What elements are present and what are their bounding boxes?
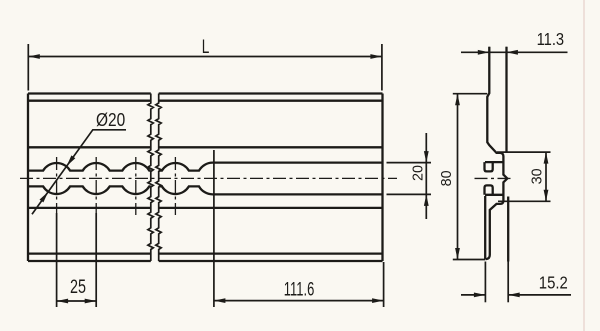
break line left zigzag [148,94,153,262]
section upper neck pocket [485,162,493,171]
svg-text:111.6: 111.6 [284,280,315,301]
section lower neck pocket [485,185,493,194]
svg-text:80: 80 [439,170,455,186]
dimension L line [28,56,382,58]
dimension 15.2 extension right [507,262,509,303]
dimension 111.6 line [214,300,384,302]
dimension 15.2 arrow left [474,293,486,298]
leader arrow at hole top edge [67,155,76,166]
dimension 25 line [57,300,97,302]
svg-text:11.3: 11.3 [537,29,565,49]
dimension 25 arrow left [57,299,69,304]
leader arrow at hole bottom edge [40,192,49,203]
dimension 20 extension line bottom [387,193,432,195]
dimension 30 extension top [497,151,551,153]
dimension 80 line [457,94,459,260]
dimension 30 line [545,152,547,201]
break line right zigzag [156,94,161,262]
section right edge top bar [505,47,507,153]
dimension 11.3 extension left [488,47,490,53]
dimension 80 arrow bottom [455,248,460,260]
dimension 11.3 extension right [505,47,507,53]
dimension 30 arrow top [544,152,549,164]
section lower shelf [485,194,503,196]
svg-text:L: L [202,37,210,58]
dimension 111.6 arrow right [372,298,384,303]
dimension 30 arrow bottom [544,190,549,202]
svg-text:30: 30 [530,168,546,184]
dimension 25 extension line left [56,213,58,307]
slot bottom edge with hole troughs [28,186,383,194]
inner line below top [28,100,383,102]
scanned page edge artifact [583,0,585,331]
dimension L arrow right [370,54,382,59]
hole 3 vertical center line [135,157,137,215]
dimension 20 arrow bottom [424,194,429,206]
svg-text:25: 25 [70,277,86,298]
inner line above bottom [28,252,383,254]
hole 2 vertical center line [95,157,97,213]
dimension 111.6 arrow left [214,298,226,303]
dimension 25 extension line right [95,213,97,307]
dimension 25 arrow right [85,299,97,304]
dimension 80 extension top [453,93,487,95]
dimension 80 extension bottom [453,259,485,261]
section upper shelf [485,161,503,163]
dimension 20 extension line top [387,162,432,164]
dimension 80 arrow top [455,94,460,106]
dimension 20 arrow top [424,151,429,163]
svg-text:15.2: 15.2 [539,272,568,292]
dimension 111.6 extension line right [383,262,385,307]
dimension L arrow left [28,54,40,59]
inner line below slot [28,207,383,209]
svg-text:Ø20: Ø20 [96,109,125,130]
inner line above slot [28,146,383,148]
horizontal center line [20,177,397,179]
dimension 30 extension bottom [498,200,551,202]
dimension 11.3 arrow right [506,50,518,55]
dimension L extension line right [381,44,383,91]
slot top edge with hole crests [28,163,383,171]
dimension 15.2 arrow right [508,293,520,298]
section right edge bottom bar [507,197,509,262]
rail top edge (split at break) [28,92,383,94]
dimension 15.2 line [461,294,571,296]
dimension 111.6 extension line left [213,150,215,307]
hole 1 vertical center line [56,157,58,213]
svg-text:20: 20 [411,165,427,181]
section outer left lower face [484,196,486,259]
dimension 20 line [425,133,427,219]
hole 4 vertical center line [174,157,176,215]
dimension L extension line left [27,44,29,91]
section center line [475,177,513,179]
leader line for hole diameter [32,130,126,214]
rail outline right edge [381,94,383,262]
dimension 11.3 arrow left [478,50,490,55]
rail outline left edge [27,94,29,262]
dimension 15.2 extension left [484,262,486,303]
dimension 11.3 line [461,51,568,53]
section left contour [486,47,508,259]
rail bottom edge (split at break) [28,260,383,262]
